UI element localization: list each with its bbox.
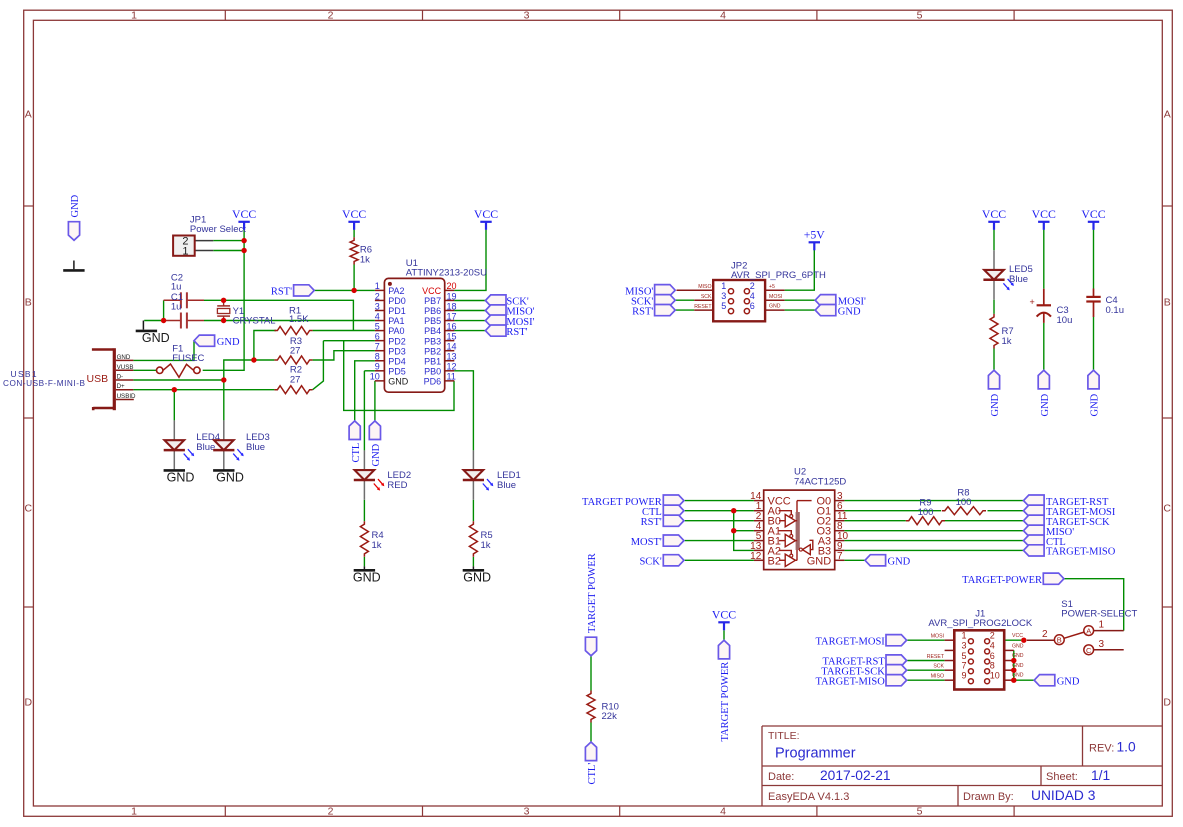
svg-text:GND: GND (1057, 676, 1080, 687)
svg-text:VCC: VCC (1012, 633, 1023, 639)
svg-text:PD0: PD0 (388, 296, 406, 306)
svg-text:PD5: PD5 (388, 366, 406, 376)
svg-text:GND: GND (1012, 643, 1024, 649)
svg-text:8: 8 (375, 352, 380, 362)
svg-text:CRYSTAL: CRYSTAL (233, 315, 276, 326)
svg-text:GND: GND (167, 471, 195, 485)
svg-text:PB2: PB2 (424, 346, 441, 356)
svg-text:1u: 1u (171, 281, 182, 292)
svg-text:13: 13 (447, 352, 457, 362)
svg-text:1k: 1k (372, 540, 382, 551)
svg-text:PD1: PD1 (388, 306, 406, 316)
svg-text:PB0: PB0 (424, 366, 441, 376)
svg-text:3: 3 (1099, 639, 1105, 650)
svg-text:14: 14 (447, 342, 457, 352)
svg-text:8: 8 (990, 661, 995, 671)
svg-text:TARGET-POWER: TARGET-POWER (962, 575, 1042, 586)
svg-text:USB: USB (87, 373, 109, 385)
svg-text:C: C (25, 503, 33, 515)
svg-text:VCC: VCC (1081, 207, 1105, 221)
svg-text:1: 1 (131, 10, 137, 22)
svg-text:2: 2 (750, 281, 755, 291)
svg-text:EasyEDA V4.1.3: EasyEDA V4.1.3 (768, 791, 849, 803)
svg-text:AVR_SPI_PROG2LOCK: AVR_SPI_PROG2LOCK (928, 618, 1033, 629)
svg-text:USB1: USB1 (11, 369, 38, 379)
svg-text:PB7: PB7 (424, 296, 441, 306)
svg-text:5: 5 (917, 806, 923, 818)
svg-text:2017-02-21: 2017-02-21 (820, 768, 891, 783)
svg-text:27: 27 (290, 374, 301, 385)
svg-text:100: 100 (918, 507, 934, 518)
svg-text:GND: GND (217, 337, 240, 348)
svg-text:3: 3 (961, 641, 966, 651)
svg-text:4: 4 (720, 806, 726, 818)
svg-text:2: 2 (375, 291, 380, 301)
svg-text:11: 11 (447, 372, 456, 382)
svg-text:9: 9 (375, 362, 380, 372)
svg-text:2: 2 (990, 631, 995, 641)
svg-text:+: + (1030, 297, 1035, 307)
svg-text:Programmer: Programmer (775, 746, 856, 762)
svg-text:1/1: 1/1 (1091, 768, 1110, 783)
svg-text:VCC: VCC (474, 207, 498, 221)
svg-text:POWER-SELECT: POWER-SELECT (1061, 609, 1137, 620)
svg-text:Blue: Blue (196, 442, 215, 453)
svg-text:+5: +5 (769, 284, 775, 290)
svg-text:5: 5 (375, 321, 380, 331)
svg-text:VCC: VCC (422, 286, 442, 296)
svg-text:VUSB: VUSB (117, 364, 134, 371)
svg-text:RST': RST' (632, 306, 653, 317)
svg-text:TARGET POWER: TARGET POWER (720, 662, 731, 742)
svg-text:6: 6 (375, 331, 380, 341)
svg-text:6: 6 (990, 651, 995, 661)
svg-text:D: D (25, 697, 33, 709)
svg-text:0.1u: 0.1u (1106, 305, 1125, 316)
svg-text:TARGET-MISO: TARGET-MISO (1046, 547, 1116, 558)
svg-text:19: 19 (447, 291, 457, 301)
svg-text:SCK: SCK (701, 294, 712, 300)
svg-text:CTL': CTL' (587, 763, 598, 785)
svg-text:MISO: MISO (698, 284, 711, 290)
svg-text:CON-USB-F-MINI-B: CON-USB-F-MINI-B (3, 379, 85, 388)
svg-text:7: 7 (961, 661, 966, 671)
svg-text:PB4: PB4 (424, 326, 441, 336)
svg-text:MOST': MOST' (631, 537, 662, 548)
svg-text:UNIDAD 3: UNIDAD 3 (1031, 788, 1096, 803)
svg-text:17: 17 (447, 311, 457, 321)
svg-text:9: 9 (961, 671, 966, 681)
svg-text:Power Select: Power Select (190, 224, 246, 235)
svg-text:Blue: Blue (1009, 274, 1028, 285)
svg-text:15: 15 (447, 331, 457, 341)
svg-text:GND: GND (388, 376, 409, 386)
svg-text:C: C (1086, 646, 1092, 655)
svg-text:7: 7 (375, 342, 380, 352)
svg-text:2: 2 (328, 10, 334, 22)
svg-text:10: 10 (370, 372, 380, 382)
svg-text:SCK': SCK' (639, 557, 661, 568)
svg-text:B: B (25, 297, 32, 309)
svg-text:4: 4 (375, 311, 380, 321)
svg-text:RST': RST' (506, 327, 527, 338)
svg-text:12: 12 (750, 551, 762, 562)
svg-text:VCC: VCC (232, 207, 256, 221)
svg-text:PA0: PA0 (388, 326, 404, 336)
svg-text:AVR_SPI_PRG_6PTH: AVR_SPI_PRG_6PTH (731, 270, 826, 281)
svg-text:GND: GND (807, 555, 832, 567)
svg-text:RESET: RESET (927, 654, 945, 660)
svg-text:3: 3 (721, 291, 726, 301)
svg-text:CTL: CTL (351, 443, 362, 463)
svg-text:7: 7 (837, 551, 843, 562)
svg-text:1k: 1k (481, 540, 491, 551)
svg-text:GND: GND (888, 557, 911, 568)
svg-text:5: 5 (961, 651, 966, 661)
svg-text:1u: 1u (171, 301, 182, 312)
svg-text:74ACT125D: 74ACT125D (794, 477, 846, 488)
svg-text:MISO: MISO (931, 674, 944, 680)
svg-text:PB3: PB3 (424, 336, 441, 346)
svg-text:2: 2 (1042, 629, 1048, 640)
svg-text:PA2: PA2 (388, 286, 404, 296)
svg-text:PB6: PB6 (424, 306, 441, 316)
svg-text:C: C (1163, 503, 1171, 515)
svg-text:RED: RED (387, 480, 407, 491)
svg-text:B: B (1164, 297, 1171, 309)
svg-text:VCC: VCC (982, 207, 1006, 221)
svg-text:PD4: PD4 (388, 356, 406, 366)
svg-text:3: 3 (375, 301, 380, 311)
svg-text:VCC: VCC (712, 608, 736, 622)
svg-text:Date:: Date: (768, 771, 794, 783)
svg-text:Drawn By:: Drawn By: (963, 791, 1014, 803)
svg-text:SCK: SCK (933, 664, 944, 670)
svg-text:2: 2 (328, 806, 334, 818)
svg-text:MOSI: MOSI (931, 634, 944, 640)
svg-text:D+: D+ (117, 383, 125, 390)
svg-text:6: 6 (750, 301, 755, 311)
svg-text:RST': RST' (641, 517, 662, 528)
svg-text:GND: GND (769, 304, 781, 310)
svg-text:A: A (25, 109, 32, 121)
svg-text:Blue: Blue (497, 480, 516, 491)
svg-text:A: A (1164, 109, 1171, 121)
svg-text:VCC: VCC (342, 207, 366, 221)
svg-text:FUSEC: FUSEC (172, 353, 204, 364)
svg-text:20: 20 (447, 281, 457, 291)
svg-text:4: 4 (720, 10, 726, 22)
svg-text:4: 4 (750, 291, 755, 301)
svg-text:+5V: +5V (804, 228, 826, 242)
svg-text:1: 1 (182, 245, 188, 257)
svg-text:RESET: RESET (694, 304, 712, 310)
svg-text:Sheet:: Sheet: (1046, 771, 1078, 783)
svg-text:1.5K: 1.5K (289, 314, 309, 325)
svg-text:D: D (1163, 697, 1171, 709)
svg-text:27: 27 (290, 346, 301, 357)
svg-text:GND: GND (70, 194, 81, 217)
svg-text:TARGET-MOSI: TARGET-MOSI (815, 636, 885, 647)
svg-text:10: 10 (990, 671, 1000, 681)
svg-text:REV:: REV: (1089, 743, 1114, 755)
svg-text:B: B (1057, 636, 1062, 645)
svg-text:1k: 1k (360, 254, 370, 265)
svg-text:1: 1 (1099, 620, 1105, 631)
svg-text:TARGET POWER: TARGET POWER (587, 553, 598, 633)
svg-text:3: 3 (524, 806, 530, 818)
svg-text:PD3: PD3 (388, 346, 406, 356)
svg-text:ATTINY2313-20SU: ATTINY2313-20SU (406, 268, 487, 279)
svg-text:GND: GND (1090, 393, 1101, 416)
svg-text:5: 5 (917, 10, 923, 22)
svg-text:GND: GND (353, 571, 381, 585)
svg-text:PD6: PD6 (424, 376, 442, 386)
svg-text:16: 16 (447, 321, 457, 331)
svg-text:TITLE:: TITLE: (768, 730, 800, 742)
svg-text:Blue: Blue (246, 442, 265, 453)
svg-text:1: 1 (721, 281, 726, 291)
svg-text:1k: 1k (1002, 336, 1012, 347)
svg-text:GND: GND (463, 571, 491, 585)
svg-text:MOSI: MOSI (769, 294, 782, 300)
svg-text:1.0: 1.0 (1117, 740, 1137, 755)
svg-text:GND: GND (990, 393, 1001, 416)
svg-text:12: 12 (447, 362, 457, 372)
svg-text:GND: GND (142, 331, 170, 345)
svg-text:5: 5 (721, 301, 726, 311)
svg-text:1: 1 (131, 806, 137, 818)
svg-text:TARGET-MISO: TARGET-MISO (815, 676, 885, 687)
svg-text:GND: GND (1040, 393, 1051, 416)
svg-text:PB5: PB5 (424, 316, 441, 326)
svg-text:PD2: PD2 (388, 336, 406, 346)
svg-text:3: 3 (524, 10, 530, 22)
svg-text:USBID: USBID (117, 393, 136, 400)
svg-text:22k: 22k (602, 711, 618, 722)
svg-text:B2: B2 (768, 555, 781, 567)
svg-text:10u: 10u (1057, 315, 1073, 326)
svg-text:PB1: PB1 (424, 356, 441, 366)
svg-text:PA1: PA1 (388, 316, 404, 326)
svg-text:1: 1 (375, 281, 380, 291)
svg-text:18: 18 (447, 301, 457, 311)
svg-text:4: 4 (990, 641, 995, 651)
svg-text:GND: GND (117, 354, 131, 361)
svg-text:D-: D- (117, 374, 124, 381)
svg-text:100: 100 (956, 497, 972, 508)
svg-text:A: A (1086, 627, 1091, 636)
svg-text:GND: GND (371, 443, 382, 466)
svg-text:GND: GND (216, 471, 244, 485)
svg-text:VCC: VCC (1032, 207, 1056, 221)
svg-text:RST': RST' (271, 287, 292, 298)
svg-text:GND: GND (838, 306, 861, 317)
svg-text:1: 1 (961, 631, 966, 641)
